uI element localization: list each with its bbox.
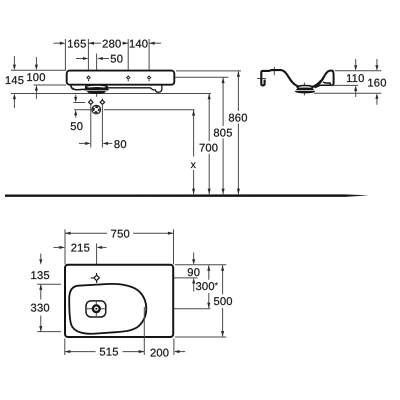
plan view: tap extension line down — [96, 243, 98, 271]
svg-text:90: 90 — [187, 267, 200, 279]
front view: extension line top-left (145/100 upper, y=70) — [11, 69, 66, 71]
plan view: left extension lines — [37, 283, 61, 285]
svg-text:215: 215 — [71, 243, 90, 255]
dimension 805 — [222, 78, 224, 127]
dimension 750 (plan) — [65, 232, 107, 234]
dimension 200 (plan bottom) — [180, 351, 186, 353]
dimension 100 (front left) — [35, 57, 37, 99]
side view: faucet axis tick — [273, 67, 275, 75]
plan view: bottom extension lines — [64, 339, 66, 356]
svg-text:700: 700 — [199, 143, 218, 155]
svg-text:50: 50 — [110, 53, 123, 65]
plan view: drain center line to right (300 lower extension) — [101, 308, 211, 310]
dimension 165 (top chain, outside arrows) — [54, 42, 61, 44]
dimension 145 (front left) — [13, 56, 15, 108]
dimension 500 (plan right) — [222, 265, 224, 294]
front view: fixing bolt diamonds — [89, 100, 105, 104]
plan view: drain symbol — [86, 301, 106, 317]
front view: drain outlet circle — [92, 105, 101, 114]
front view: drain trap flange — [84, 85, 109, 94]
svg-text:330: 330 — [31, 303, 50, 315]
side view: wall tick — [257, 78, 266, 80]
side view: drain dome — [295, 86, 315, 94]
dimension 80 (fixing bolts) — [79, 142, 85, 144]
side view: bowl inner edge line — [319, 77, 325, 84]
front view: extension line left (100 lower, y=85) — [34, 84, 67, 86]
svg-text:110: 110 — [346, 73, 364, 85]
dimension 700 — [208, 94, 210, 142]
side view: back fin — [314, 71, 334, 87]
dimension 110 (side) — [355, 59, 357, 65]
plan view: bowl outline — [69, 284, 146, 334]
svg-text:805: 805 — [213, 127, 232, 139]
plan view: tap center line to right (90 lower extension) — [99, 277, 197, 279]
svg-text:x: x — [191, 159, 197, 171]
dimension 515 (plan bottom) — [65, 351, 96, 353]
svg-text:300*: 300* — [195, 281, 218, 293]
dimension x (drain height) — [193, 110, 195, 157]
dimension 215 (plan) — [54, 246, 60, 248]
dimension 160 (side) — [376, 59, 378, 65]
svg-text:500: 500 — [213, 296, 232, 308]
plan view: tap hole symbol — [91, 273, 100, 283]
side view: basin profile — [261, 70, 321, 87]
front view: fixing bolt extension lines down — [90, 104, 92, 147]
plan view: right extension lines — [175, 264, 226, 266]
svg-text:280: 280 — [102, 38, 121, 50]
svg-text:135: 135 — [31, 270, 50, 282]
front view: chain extension lines above basin — [65, 39, 149, 75]
svg-text:200: 200 — [150, 348, 169, 360]
svg-text:165: 165 — [67, 38, 86, 50]
extension line drain height (y=109.8 right) — [104, 109, 195, 111]
front view: left foot hook — [71, 85, 85, 90]
dimension 330 (plan left) — [40, 284, 42, 299]
svg-text:100: 100 — [26, 72, 45, 84]
front view: extension line (145 lower / 700 upper, y=93.5) — [11, 93, 211, 95]
dimension 280 (top chain, inside arrows) — [88, 42, 101, 44]
side view: fin foot step — [323, 82, 330, 85]
svg-text:145: 145 — [5, 75, 24, 87]
side view: fin bottom edge — [315, 85, 332, 88]
dimension 860 — [237, 71, 239, 111]
dimension 90 (plan right) — [193, 253, 195, 260]
svg-text:160: 160 — [367, 78, 386, 90]
svg-text:750: 750 — [111, 229, 130, 241]
front view: basin outline — [67, 71, 175, 85]
front view: extension line right (860, y=70.9) — [176, 70, 241, 72]
svg-text:860: 860 — [228, 112, 247, 124]
front view: trap axis vertical line — [96, 54, 98, 97]
front view: extension line right (805, y=77.3) — [175, 76, 229, 78]
dimension 50 (trap vertical, front) — [73, 102, 85, 104]
plan view: extension lines above rect — [64, 229, 66, 264]
side view: drain axis tick — [303, 83, 305, 96]
svg-text:50: 50 — [70, 121, 83, 133]
svg-text:515: 515 — [99, 347, 118, 359]
dimension 50 (faucet offset, front) — [76, 58, 83, 60]
dimension 300* (plan right) — [208, 265, 210, 280]
ground line — [5, 194, 369, 197]
svg-text:140: 140 — [129, 38, 148, 50]
dimension 140 (top chain) — [149, 42, 161, 44]
plan view: basin outer rect — [65, 265, 173, 337]
svg-text:80: 80 — [114, 139, 127, 151]
dimension 135 (plan left) — [40, 254, 42, 260]
side view: extension lines right — [335, 70, 382, 72]
front view: faucet hole diamonds on basin face — [86, 75, 151, 80]
front view: underside skirt line and right foot — [85, 86, 162, 93]
